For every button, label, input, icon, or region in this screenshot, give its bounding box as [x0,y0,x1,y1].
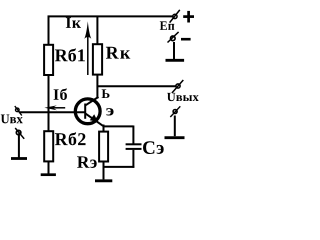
terminal Eп minus [168,32,179,43]
label Iб [54,88,67,100]
capacitor Сэ [126,144,142,149]
capacitor Сэ branch wire upper [132,126,134,144]
resistor Rб2 [44,131,53,161]
base wire [19,111,86,113]
label Сэ [143,141,164,154]
plus sign [183,11,194,23]
ground Rб2 [41,173,56,176]
label Uвх [1,115,23,124]
resistor Rк [93,44,102,74]
label э emitter [106,108,113,115]
ground Eп [166,59,185,62]
label Rэ [77,156,97,168]
ground Uвых return [165,136,185,139]
resistor Rб1 [44,45,53,75]
emitter node wire to cap [103,125,134,127]
terminal Uвх return [15,128,24,139]
output wire [97,85,176,87]
label Rб2 [55,132,86,145]
terminal Uвх [15,106,22,116]
ground left input [11,157,27,160]
wire collector column upper [96,16,98,46]
label Ь collector node [102,89,110,98]
resistor Rэ [99,132,108,162]
label Rк [106,47,130,59]
wire below Rб2 [48,161,50,173]
terminal Uвых [172,80,183,93]
current arrow Iб [53,107,65,109]
terminal Uвых return [170,106,180,117]
minus sign [181,38,191,41]
label Rб1 [55,48,85,61]
terminal Eп plus [170,10,180,23]
ground emitter [95,179,112,182]
wire top rail [48,15,173,17]
wire Uвых return to ground [174,116,176,137]
label Uвых [167,93,199,101]
label Iк [66,17,81,27]
current arrow Iк [87,32,89,75]
label Eп [160,21,175,30]
capacitor branch wire lower [132,150,134,168]
wire minus to ground [173,42,175,59]
wire left column upper [48,16,50,46]
wire to ground left [18,133,20,157]
wire below Rэ [103,162,105,180]
wire collector to node [96,75,98,99]
wire left column middle [48,75,50,132]
emitter wire down [103,125,105,133]
transistor VT1 [75,97,103,126]
capacitor return wire [104,166,135,168]
